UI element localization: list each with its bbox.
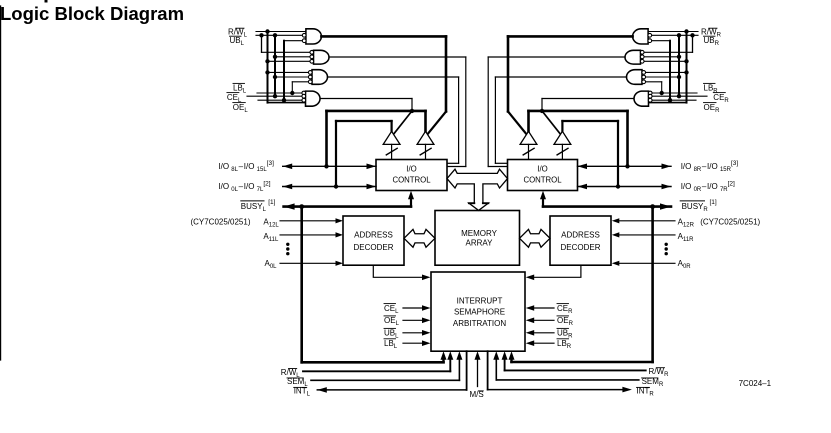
MEMORY ARRAY block [435,211,520,266]
svg-text:INTERRUPT: INTERRUPT [457,297,503,306]
label CE_L at arbitration [384,304,399,315]
wire INT_L from arbitration [317,351,466,393]
AND gate U3 left [308,70,327,85]
label BUSY_L [1] [241,199,276,213]
buffer amplifier left B [417,131,434,159]
label A_0R [678,259,692,270]
svg-text:ARBITRATION: ARBITRATION [453,319,506,328]
hollow address bus arrow left decoder to memory [404,229,435,247]
wire gate U4 left output to buffer enable [321,99,414,135]
wire gate U7 right output [495,77,626,163]
buffer amplifier right A [554,131,571,159]
svg-text:M/S: M/S [470,390,484,399]
label M/S [470,390,484,399]
wire A_12L [280,218,343,223]
label SEM_R bottom [642,377,664,388]
svg-text:ADDRESS: ADDRESS [354,230,393,239]
label UB_R [704,36,720,47]
vertical distribution wire V2 left [265,32,312,103]
label CE_R [713,93,729,104]
label UB_R at arbitration [557,328,573,339]
wire BUSY_R (thick) [540,191,671,210]
wire LB_R into arbitration [526,340,554,346]
svg-text:[1]: [1] [710,199,717,206]
svg-text:DECODER: DECODER [560,243,600,252]
wire UB_R to gate input [650,34,698,36]
label A_12L [263,218,279,229]
svg-text:MEMORY: MEMORY [461,229,498,238]
svg-text:CONTROL: CONTROL [392,176,431,185]
wire R/W_L to gate U1 input [256,31,306,33]
vertical distribution wire V4 right [648,41,672,103]
AND gate U5 right [633,29,652,44]
junction dots on R/W_R and UB_R wires [677,29,695,37]
AND gate U7 right [627,70,646,85]
svg-text:CONTROL: CONTROL [523,176,562,185]
label INT_R bottom [637,387,655,398]
wire LB_L to gate U4 input [257,82,310,95]
wire buffer input elbow right [562,121,618,187]
wire CE_L into arbitration [403,305,431,311]
svg-text:(CY7C025/0251): (CY7C025/0251) [700,218,760,227]
label (CY7C025/0251) left [190,218,250,227]
page border left [0,6,2,360]
vertical distribution wire V1 right [642,35,692,52]
wire output-enable bus left (thick elbow) [327,111,426,166]
wire BUSY_L (thick) [284,191,414,210]
wire gate U8 right output to buffer enable [540,99,633,135]
wire R/W_R into arbitration [502,351,646,370]
vertical distribution wire V3 right [642,35,681,98]
label I/O 8L - I/O 15L [3] [218,160,274,173]
wire left decoder to arbitration block [373,265,430,280]
wire frame left (thick) busy loop [302,207,447,363]
wire A_11L [280,232,343,237]
wire UB_R into arbitration [526,330,554,336]
label A_12R [678,218,695,229]
svg-text:I/O: I/O [537,164,547,173]
wire gate U1 left output (thick) to buffer enable [321,36,446,134]
label A_0L [265,259,278,270]
wire I/O upper byte bus left [283,164,376,170]
label A_11R [678,232,695,243]
label SEM_L bottom [287,377,308,388]
ADDRESS DECODER block right [550,216,611,265]
wire UB_L into arbitration [403,330,431,336]
buffer amplifier right B [520,131,537,159]
AND gate U1 left (write enable upper) [302,29,321,44]
label I/O 0R - I/O 7R [2] [681,180,735,193]
label INT_L bottom [294,387,311,398]
wire frame right (thick) busy loop [509,207,653,362]
label LB_R [704,83,719,94]
wire right decoder to arbitration block [526,265,581,280]
label R/W_L [228,28,248,39]
address ellipsis dots right [665,243,668,256]
wire I/O lower byte bus left [283,184,376,190]
wire SEM_R into arbitration [493,351,639,380]
wire A_0L [280,261,343,266]
wire OE_R into arbitration [526,318,554,324]
wire A_12R [612,218,675,223]
I/O CONTROL block right [508,160,578,191]
AND gate U4 left [302,91,320,106]
wire OE_L to gate U4 input [258,99,303,101]
wire gate U2 left output [329,57,466,167]
wire OE_R to gate input [651,99,696,101]
label R/W_L bottom [281,368,301,379]
svg-text:Logic Block Diagram: Logic Block Diagram [0,3,184,24]
label (CY7C025/0251) right [700,218,760,227]
wire SEM_L into arbitration [311,351,462,380]
label I/O 8R - I/O 15R [3] [681,160,739,173]
label OE_R [704,103,721,114]
hollow data bus arrow between I/O controls and memory array [447,169,508,210]
wire gate U3 left output [328,77,459,163]
ADDRESS DECODER block left [343,216,404,265]
svg-text:SEMAPHORE: SEMAPHORE [454,308,505,317]
wire I/O upper byte bus right [578,164,672,170]
wire gate U6 right output [488,57,625,167]
wire output-enable bus right (thick elbow) [529,111,628,166]
label OE_R at arbitration [557,316,574,327]
wire OE_L into arbitration [403,318,431,324]
vertical distribution wire V3 left [273,35,312,98]
label OE_L [233,103,249,114]
svg-text:7C024–1: 7C024–1 [739,379,772,388]
AND gate U8 right [634,91,652,106]
wire A_11R [612,232,675,237]
label UB_L [230,36,245,47]
wire UB_L to gate U1 input [256,34,304,36]
svg-text:(CY7C025/0251): (CY7C025/0251) [190,218,250,227]
label A_11L [263,232,279,243]
label R/W_R [701,28,722,39]
label R/W_R bottom [649,367,670,378]
wire I/O lower byte bus right [578,184,672,190]
wire gate U5 right output (thick) to buffer enable [508,36,633,134]
wire A_0R [612,261,675,266]
wire buffer input elbow left [336,121,392,187]
address ellipsis dots left [286,243,289,256]
svg-text:[1]: [1] [268,199,275,206]
page tick mark top [45,0,48,3]
svg-text:ADDRESS: ADDRESS [561,230,600,239]
wire R/W_R to gate input [648,31,698,33]
AND gate U6 right [625,50,644,64]
wire CE_L to gate U4 input [247,95,304,97]
label LB_L [233,83,247,94]
wire R/W_L into arbitration [303,351,453,371]
AND gate U2 left [310,50,329,64]
label LB_R at arbitration [557,339,572,350]
INTERRUPT SEMAPHORE ARBITRATION block [431,272,525,351]
label BUSY_R [1] [680,199,717,213]
figure number 7C024-1 [739,379,772,388]
label UB_L at arbitration [384,328,399,339]
wire LB_L into arbitration [403,340,431,346]
hollow address bus arrow memory to right decoder [520,229,551,247]
svg-text:I/O: I/O [406,164,416,173]
label CE_L [227,93,242,104]
buffer amplifier left A [383,131,400,159]
label LB_L at arbitration [384,339,398,350]
wire INT_R from arbitration [488,351,632,392]
label CE_R at arbitration [557,304,573,315]
I/O CONTROL block left [376,160,447,191]
wire LB_R to gate input [644,82,697,95]
vertical distribution wire V2 right [642,32,689,103]
svg-text:DECODER: DECODER [353,243,393,252]
wire CE_R to gate input [650,95,707,97]
svg-text:ARRAY: ARRAY [466,239,494,248]
wire CE_R into arbitration [526,305,554,311]
label I/O 0L - I/O 7L [2] [218,180,270,193]
vertical distribution wire V1 left [262,35,312,52]
junction dots on R/W_L and UB_L wires [259,29,277,37]
label OE_L at arbitration [384,316,400,327]
wire M/S into arbitration [475,351,481,386]
vertical distribution wire V4 left [282,41,306,103]
